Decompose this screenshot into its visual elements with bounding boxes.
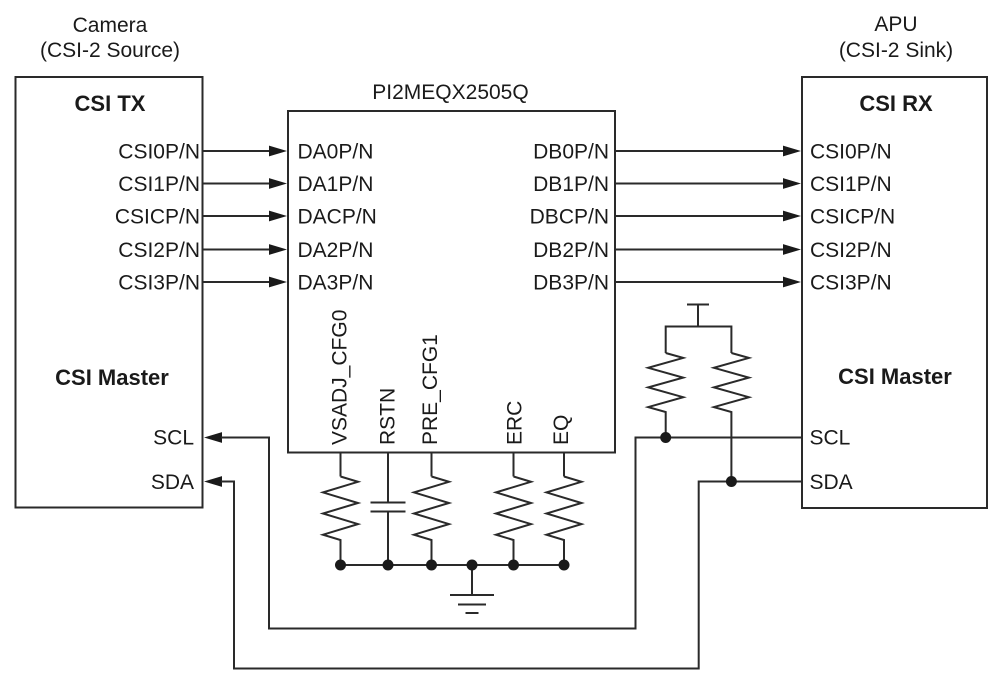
svg-text:DA3P/N: DA3P/N [298,272,374,295]
svg-text:(CSI-2 Sink): (CSI-2 Sink) [839,39,953,62]
power stub [697,305,699,327]
arrowhead DA1 [269,178,287,189]
pullup top rail [666,327,732,354]
svg-text:DB1P/N: DB1P/N [533,173,609,196]
wire CSI1 L->C [203,183,271,185]
resistor EQ [547,477,582,566]
svg-text:DB3P/N: DB3P/N [533,272,609,295]
wire DB1 C->R [615,183,784,185]
svg-text:DBCP/N: DBCP/N [530,206,609,229]
block APU (right) [802,77,987,508]
wire DB3 C->R [615,281,784,283]
svg-text:APU: APU [874,13,917,36]
wire DBC C->R [615,215,784,217]
wire CSIC L->C [203,215,271,217]
arrowhead CSI1 R [783,178,801,189]
svg-text:DA2P/N: DA2P/N [298,239,374,262]
center box right pin labels [530,141,609,295]
wire CSI0 L->C [203,150,271,152]
svg-text:CSI Master: CSI Master [55,365,169,390]
arrowhead DA0 [269,146,287,157]
power rail bar [687,304,709,306]
svg-text:SCL: SCL [810,427,851,450]
center box left pin labels [298,141,377,295]
junction dot ground tap [467,560,478,571]
junction dot SDA pullup [726,476,737,487]
svg-text:CSI Master: CSI Master [838,364,952,389]
junction dot VSADJ [335,560,346,571]
svg-text:DA0P/N: DA0P/N [298,141,374,164]
arrowhead CSI3 R [783,277,801,288]
right box pin labels [810,141,896,495]
pin stub VSADJ_CFG0 [340,453,342,477]
wire DB0 C->R [615,150,784,152]
svg-text:CSI0P/N: CSI0P/N [810,141,892,164]
svg-text:(CSI-2 Source): (CSI-2 Source) [40,39,180,62]
arrowhead CSI2 R [783,244,801,255]
svg-text:PRE_CFG1: PRE_CFG1 [419,334,442,445]
svg-text:DACP/N: DACP/N [298,206,377,229]
svg-text:CSI0P/N: CSI0P/N [118,141,200,164]
arrowhead CSI0 R [783,146,801,157]
arrowhead DAC [269,211,287,222]
left box pin labels [115,141,200,495]
svg-text:VSADJ_CFG0: VSADJ_CFG0 [329,310,352,445]
IC PI2MEQX2505Q (center block) [288,111,615,453]
wire CSI3 L->C [203,281,271,283]
wire SDA route [221,482,802,669]
svg-text:DB0P/N: DB0P/N [533,141,609,164]
svg-text:CSI2P/N: CSI2P/N [118,239,200,262]
pin stub + capacitor RSTN [387,453,389,503]
svg-text:SDA: SDA [810,471,853,494]
junction dot ERC [508,560,519,571]
wire DB2 C->R [615,249,784,251]
junction dot PRE_CFG1 [426,560,437,571]
junction dot RSTN [383,560,394,571]
resistor ERC [496,477,531,566]
svg-text:EQ: EQ [550,415,573,445]
resistor pullup SDA [714,353,749,482]
svg-text:DB2P/N: DB2P/N [533,239,609,262]
svg-text:Camera: Camera [73,14,148,37]
svg-text:CSICP/N: CSICP/N [810,206,895,229]
ground symbol [450,594,494,596]
ground stub [471,565,473,595]
svg-text:CSI2P/N: CSI2P/N [810,239,892,262]
svg-text:CSI3P/N: CSI3P/N [118,272,200,295]
svg-text:ERC: ERC [504,401,527,445]
arrowhead DA3 [269,277,287,288]
resistor PRE_CFG1 [414,477,449,566]
svg-text:RSTN: RSTN [377,388,400,445]
arrowhead CSIC R [783,211,801,222]
svg-text:CSI1P/N: CSI1P/N [810,173,892,196]
block Camera (left) [16,77,203,508]
wire SCL route [221,438,802,629]
pin stub PRE_CFG1 [431,453,433,477]
junction dot SCL pullup [660,432,671,443]
pin stub ERC [513,453,515,477]
svg-text:SCL: SCL [153,427,194,450]
svg-text:CSICP/N: CSICP/N [115,206,200,229]
svg-text:CSI1P/N: CSI1P/N [118,173,200,196]
svg-text:PI2MEQX2505Q: PI2MEQX2505Q [372,81,528,104]
pin stub EQ [563,453,565,477]
resistor VSADJ_CFG0 [323,477,358,566]
resistor pullup SCL [648,353,683,438]
arrowhead DA2 [269,244,287,255]
wire CSI2 L->C [203,249,271,251]
rotated bottom pin labels [329,310,574,445]
junction dot EQ [559,560,570,571]
svg-text:DA1P/N: DA1P/N [298,173,374,196]
svg-text:CSI3P/N: CSI3P/N [810,272,892,295]
arrowhead SCL left [204,432,222,443]
ground rail [341,564,565,566]
svg-text:CSI TX: CSI TX [75,91,146,116]
arrowhead SDA left [204,476,222,487]
svg-text:SDA: SDA [151,471,194,494]
svg-text:CSI RX: CSI RX [859,91,933,116]
